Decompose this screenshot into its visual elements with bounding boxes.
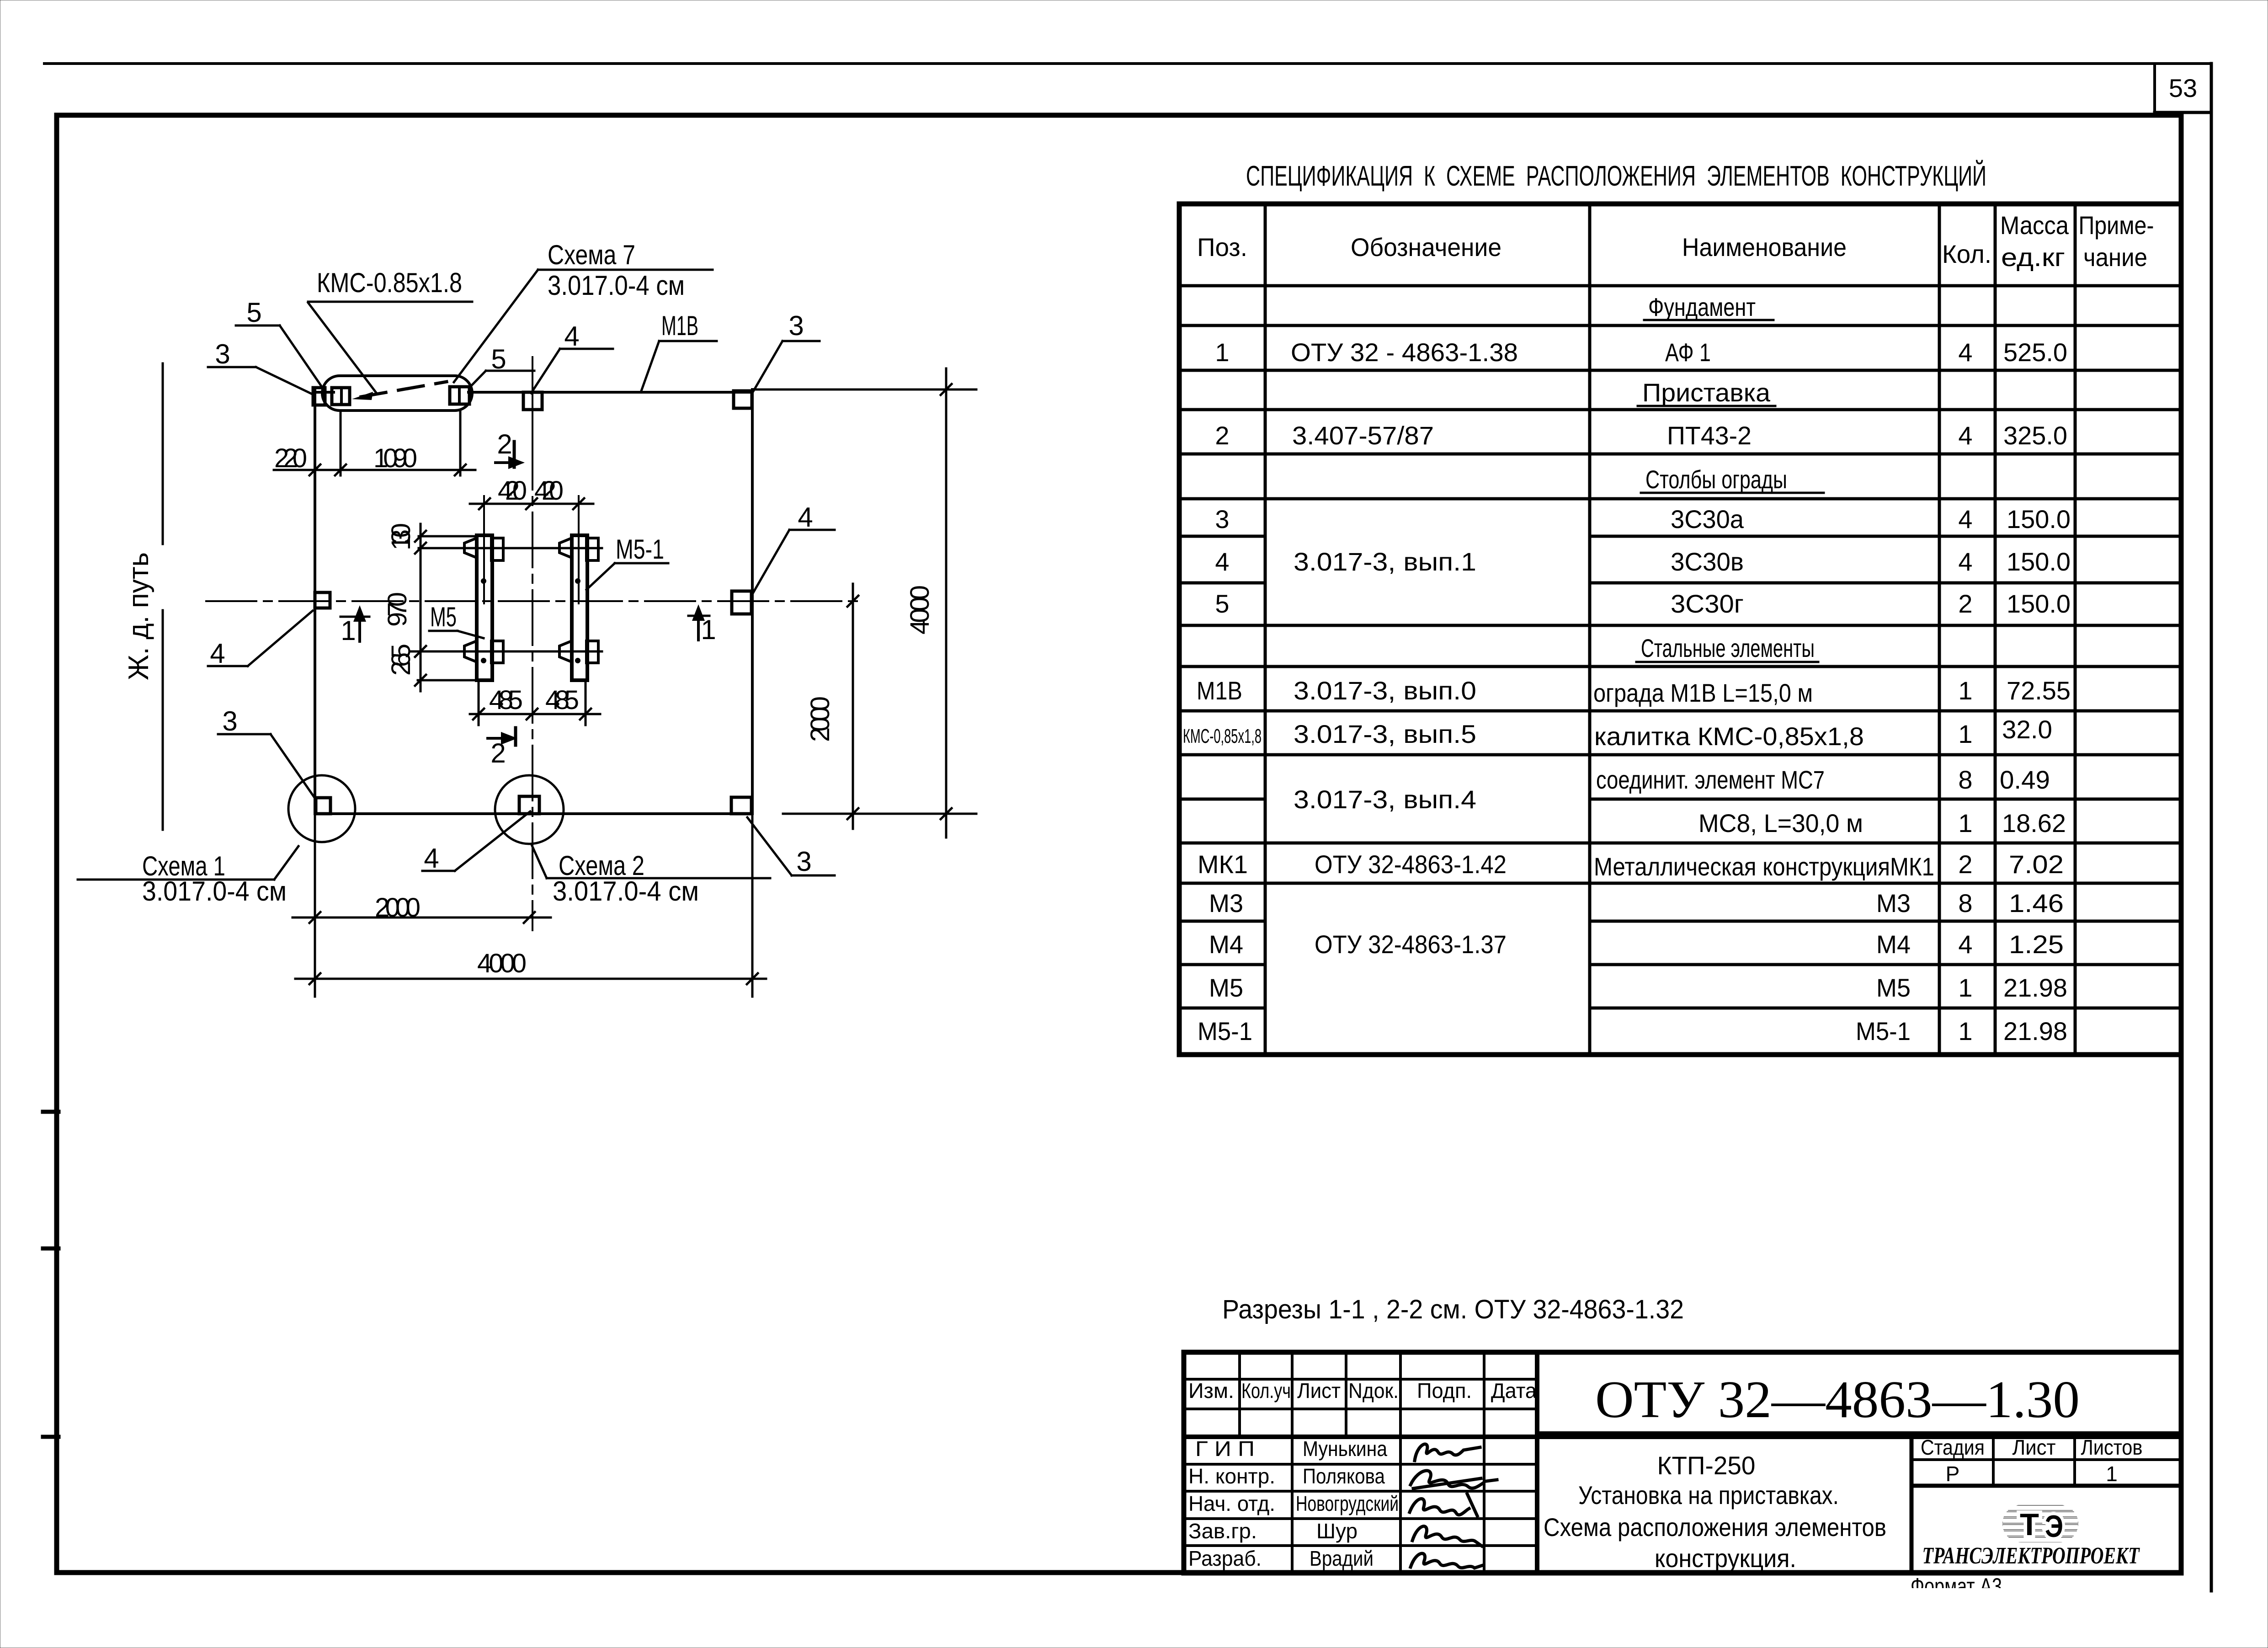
svg-text:4000: 4000	[905, 585, 935, 635]
svg-text:3: 3	[222, 706, 237, 736]
svg-text:Нач. отд.: Нач. отд.	[1188, 1492, 1275, 1515]
svg-text:М4: М4	[1209, 930, 1243, 959]
connector axis bottom	[411, 651, 602, 653]
M5-1 right bar	[572, 535, 587, 680]
svg-text:Шур: Шур	[1316, 1519, 1358, 1543]
svg-text:КМС-0,85х1,8: КМС-0,85х1,8	[1183, 725, 1262, 747]
svg-text:130: 130	[386, 523, 416, 550]
svg-text:1090: 1090	[373, 443, 417, 473]
table body texts	[1183, 293, 2071, 1045]
svg-text:Ж. д. путь: Ж. д. путь	[123, 552, 154, 680]
svg-text:Подп.: Подп.	[1417, 1379, 1472, 1403]
svg-text:ограда М1В L=15,0 м: ограда М1В L=15,0 м	[1593, 678, 1813, 707]
svg-text:4: 4	[1958, 338, 1972, 367]
sheet number box 53	[2155, 64, 2211, 1591]
svg-text:3.017-3, вып.0: 3.017-3, вып.0	[1294, 676, 1476, 705]
svg-text:21.98: 21.98	[2003, 973, 2067, 1002]
outer top rule	[44, 62, 2211, 65]
svg-text:3.017-3, вып.4: 3.017-3, вып.4	[1294, 785, 1476, 814]
svg-text:7.02: 7.02	[2009, 850, 2064, 879]
railway axis line	[162, 363, 164, 544]
svg-text:Зав.гр.: Зав.гр.	[1188, 1519, 1257, 1543]
connector MC7 top-right	[559, 538, 572, 558]
svg-text:конструкция.: конструкция.	[1655, 1544, 1796, 1573]
svg-text:М4: М4	[1876, 930, 1911, 959]
dim 485 485	[470, 682, 600, 725]
section mark 1 left	[341, 616, 369, 618]
svg-text:53: 53	[2169, 74, 2197, 102]
svg-text:М1В: М1В	[1197, 676, 1242, 705]
svg-text:150.0: 150.0	[2007, 505, 2071, 533]
corner post 3 bottom-left	[316, 798, 330, 814]
gate hinge left	[332, 388, 350, 405]
svg-text:325.0: 325.0	[2003, 421, 2067, 450]
svg-text:Полякова: Полякова	[1303, 1464, 1385, 1488]
svg-text:420: 420	[498, 476, 527, 506]
svg-text:3.017.0-4 см: 3.017.0-4 см	[142, 876, 287, 907]
svg-text:Мунькина: Мунькина	[1303, 1437, 1387, 1461]
svg-text:ОТУ 32-4863-1.42: ОТУ 32-4863-1.42	[1315, 850, 1507, 879]
svg-text:Установка на приставках.: Установка на приставках.	[1578, 1481, 1839, 1509]
svg-text:М5-1: М5-1	[616, 534, 664, 565]
svg-text:ед.кг: ед.кг	[2001, 243, 2065, 272]
corner post 3 top-right	[734, 391, 752, 408]
svg-text:72.55: 72.55	[2007, 676, 2071, 705]
svg-text:М5: М5	[1876, 973, 1911, 1002]
fence bottom line	[315, 812, 752, 815]
fence right line	[751, 389, 754, 814]
svg-text:4: 4	[1958, 930, 1972, 959]
svg-text:Листов: Листов	[2081, 1435, 2143, 1459]
svg-text:Стадия: Стадия	[1921, 1435, 1985, 1459]
fence left line	[314, 388, 316, 814]
gate obround KMC	[322, 376, 472, 411]
svg-text:Формат А3: Формат А3	[1911, 1573, 2002, 1599]
section mark 2 bottom	[488, 737, 504, 740]
svg-text:4: 4	[1215, 547, 1229, 576]
svg-text:М5: М5	[430, 602, 457, 632]
bar bottom extension line	[418, 679, 492, 682]
svg-text:1.46: 1.46	[2009, 889, 2064, 917]
svg-text:Схема расположения элементов: Схема расположения элементов	[1544, 1513, 1886, 1541]
svg-text:ТРАНСЭЛЕКТРОПРОЕКТ: ТРАНСЭЛЕКТРОПРОЕКТ	[1922, 1543, 2140, 1569]
svg-text:4: 4	[424, 843, 439, 874]
post 4 left middle	[315, 592, 330, 608]
svg-text:1: 1	[2106, 1462, 2118, 1486]
svg-text:1: 1	[1215, 338, 1229, 367]
svg-text:Разраб.: Разраб.	[1188, 1547, 1262, 1570]
stage section	[1910, 1437, 1914, 1573]
svg-text:3С30в: 3С30в	[1671, 547, 1744, 576]
svg-text:3.017-3, вып.5: 3.017-3, вып.5	[1294, 720, 1476, 748]
table outer border	[1179, 204, 2181, 1055]
dim 4000 bottom	[295, 978, 766, 980]
svg-text:21.98: 21.98	[2003, 1017, 2067, 1045]
svg-text:1: 1	[1958, 676, 1972, 705]
detail circle Schema 2	[495, 775, 564, 844]
svg-text:М3: М3	[1209, 889, 1243, 917]
svg-text:4000: 4000	[477, 949, 527, 978]
small table rows	[1184, 1378, 1537, 1381]
svg-text:М5-1: М5-1	[1856, 1017, 1911, 1045]
gate hinge right	[450, 387, 469, 404]
svg-text:Поз.: Поз.	[1197, 233, 1247, 261]
svg-text:3: 3	[788, 310, 804, 341]
svg-text:1: 1	[701, 614, 716, 645]
svg-text:150.0: 150.0	[2007, 547, 2071, 576]
svg-text:1: 1	[1958, 720, 1972, 748]
svg-text:МС8, L=30,0 м: МС8, L=30,0 м	[1698, 809, 1863, 837]
dim 2000 right	[852, 584, 854, 829]
svg-text:2: 2	[490, 738, 506, 768]
svg-text:2000: 2000	[805, 696, 835, 742]
table column lines	[1264, 204, 1267, 1055]
svg-text:Nдок.: Nдок.	[1348, 1379, 1399, 1403]
svg-text:2: 2	[1958, 850, 1972, 879]
post 4 right middle	[732, 591, 751, 614]
dim 220 1090	[274, 411, 475, 475]
svg-text:Изм.: Изм.	[1188, 1379, 1234, 1403]
svg-text:8: 8	[1958, 765, 1972, 794]
svg-text:4: 4	[798, 502, 813, 533]
connector MC7 bottom-left	[464, 641, 477, 662]
svg-text:АФ 1: АФ 1	[1665, 338, 1711, 367]
svg-text:2: 2	[1958, 589, 1972, 618]
post 4 top middle	[523, 392, 542, 410]
svg-text:Кол.: Кол.	[1942, 240, 1991, 268]
signatures	[1410, 1444, 1497, 1568]
svg-text:3.017-3, вып.1: 3.017-3, вып.1	[1294, 547, 1476, 576]
svg-text:Врадий: Врадий	[1310, 1547, 1374, 1570]
svg-text:525.0: 525.0	[2003, 338, 2067, 367]
svg-text:Г И П: Г И П	[1195, 1437, 1255, 1461]
connector MC7 top-left	[464, 538, 477, 558]
big doc number box	[1535, 1352, 1539, 1573]
svg-text:1: 1	[1958, 973, 1972, 1002]
dim 420 420	[470, 498, 593, 509]
svg-text:калитка КМС-0,85х1,8: калитка КМС-0,85х1,8	[1594, 722, 1864, 751]
svg-text:Наименование: Наименование	[1682, 233, 1847, 261]
detail circle Schema 1	[288, 775, 355, 842]
vertical centerline	[532, 357, 533, 930]
svg-text:2: 2	[1215, 421, 1229, 450]
horizontal centerline	[206, 600, 858, 602]
svg-text:МК1: МК1	[1198, 850, 1248, 879]
connector axis top	[458, 547, 602, 549]
bolt axis left	[483, 496, 485, 603]
gate swing dashed line	[361, 382, 447, 397]
corner post 3 top-left	[313, 388, 325, 405]
corner post 3 bottom-right	[731, 797, 751, 814]
svg-text:Разрезы 1-1 , 2-2 см. ОТУ 32-4: Разрезы 1-1 , 2-2 см. ОТУ 32-4863-1.32	[1222, 1295, 1684, 1324]
svg-text:4: 4	[1958, 547, 1972, 576]
svg-text:1.25: 1.25	[2009, 930, 2064, 959]
small table columns	[1238, 1352, 1241, 1437]
svg-text:чание: чание	[2083, 243, 2147, 272]
svg-text:М5-1: М5-1	[1198, 1017, 1252, 1045]
svg-text:Р: Р	[1946, 1462, 1960, 1486]
svg-text:ОТУ 32 - 4863-1.38: ОТУ 32 - 4863-1.38	[1291, 338, 1518, 367]
title block outer	[1184, 1352, 2181, 1573]
table header texts	[1197, 211, 2154, 272]
svg-text:485: 485	[545, 685, 579, 715]
bolt dots	[481, 578, 486, 584]
svg-text:Столбы ограды: Столбы ограды	[1645, 465, 1787, 494]
svg-text:Дата: Дата	[1491, 1379, 1537, 1403]
header labels	[1188, 1379, 1537, 1570]
svg-text:СПЕЦИФИКАЦИЯ К СХЕМЕ РАСПОЛ: СПЕЦИФИКАЦИЯ К СХЕМЕ РАСПОЛОЖЕНИЯ ЭЛЕМЕН…	[1246, 160, 1986, 192]
svg-text:32.0: 32.0	[2002, 715, 2052, 744]
svg-text:8: 8	[1958, 889, 1972, 917]
svg-text:М3: М3	[1876, 889, 1911, 917]
svg-text:18.62: 18.62	[2002, 809, 2066, 837]
svg-text:4: 4	[210, 638, 225, 669]
svg-text:Новогрудский: Новогрудский	[1296, 1492, 1399, 1515]
svg-text:Металлическая конструкцияМК1: Металлическая конструкцияМК1	[1594, 852, 1934, 881]
svg-text:М1В: М1В	[661, 310, 698, 341]
post 4 bottom middle	[519, 796, 539, 814]
svg-text:3С30г: 3С30г	[1671, 589, 1744, 618]
svg-text:ОТУ 32-4863-1.37: ОТУ 32-4863-1.37	[1315, 930, 1507, 959]
svg-text:Масса: Масса	[2000, 211, 2069, 240]
svg-text:3С30а: 3С30а	[1671, 505, 1744, 533]
svg-text:3: 3	[796, 846, 811, 877]
svg-text:Н. контр.: Н. контр.	[1188, 1464, 1275, 1488]
svg-text:КТП-250: КТП-250	[1657, 1451, 1756, 1480]
TEP logo	[2002, 1505, 2078, 1544]
svg-text:Стальные элементы: Стальные элементы	[1641, 634, 1815, 662]
svg-text:970: 970	[383, 592, 412, 627]
svg-text:4: 4	[1958, 421, 1972, 450]
svg-text:ПТ43-2: ПТ43-2	[1667, 421, 1752, 450]
svg-text:Лист: Лист	[2012, 1435, 2056, 1459]
connector MC7 bottom-right	[559, 641, 572, 662]
svg-text:4: 4	[1958, 505, 1972, 533]
svg-text:3.017.0-4 см: 3.017.0-4 см	[548, 270, 685, 301]
svg-text:3.017.0-4 см: 3.017.0-4 см	[553, 876, 699, 907]
fence top line M1B	[313, 391, 334, 394]
svg-text:420: 420	[534, 476, 564, 506]
svg-text:2: 2	[497, 429, 512, 459]
svg-text:Э: Э	[2045, 1509, 2063, 1544]
right dim extension lines	[753, 389, 976, 391]
post axis line top middle	[532, 357, 533, 434]
svg-text:485: 485	[489, 685, 523, 715]
svg-text:КМС-0.85х1.8: КМС-0.85х1.8	[317, 267, 462, 298]
format note fragment	[1911, 1573, 2002, 1599]
svg-text:1: 1	[1958, 809, 1972, 837]
bolt axis right	[578, 496, 580, 603]
svg-text:Т: Т	[2020, 1507, 2039, 1542]
svg-text:220: 220	[274, 443, 307, 473]
bottom dim extension lines	[314, 814, 316, 997]
svg-text:3: 3	[1215, 505, 1229, 533]
svg-text:1: 1	[1958, 1017, 1972, 1045]
svg-text:1: 1	[341, 615, 356, 646]
svg-text:соединит. элемент МС7: соединит. элемент МС7	[1596, 765, 1825, 794]
svg-text:265: 265	[386, 644, 416, 676]
svg-text:150.0: 150.0	[2007, 589, 2071, 618]
svg-text:0.49: 0.49	[2000, 765, 2050, 794]
M5 left bar	[477, 535, 492, 680]
svg-text:3.407-57/87: 3.407-57/87	[1292, 421, 1434, 450]
svg-text:ОТУ 32—4863—1.30: ОТУ 32—4863—1.30	[1595, 1371, 2080, 1429]
svg-text:3: 3	[215, 339, 230, 369]
svg-text:5: 5	[1215, 589, 1229, 618]
svg-text:Приставка: Приставка	[1642, 378, 1771, 407]
svg-text:2000: 2000	[375, 893, 421, 923]
svg-text:5: 5	[246, 297, 261, 328]
project name box texts	[1544, 1451, 1886, 1573]
dim 2000 bottom	[293, 917, 551, 919]
svg-text:Приме-: Приме-	[2079, 211, 2154, 240]
section mark 1 right	[688, 615, 709, 617]
fold tick marks on left edge	[43, 1110, 59, 1114]
dim 4000 right	[945, 368, 948, 837]
svg-text:4: 4	[564, 321, 579, 352]
svg-text:Обозначение: Обозначение	[1351, 233, 1501, 261]
svg-text:Лист: Лист	[1297, 1379, 1341, 1403]
svg-text:Схема 7: Схема 7	[548, 240, 635, 270]
svg-text:Фундамент: Фундамент	[1648, 293, 1756, 321]
svg-text:М5: М5	[1209, 973, 1243, 1002]
table row lines	[1179, 284, 2181, 288]
dim chain 130 970 265	[415, 524, 477, 691]
svg-text:Кол.уч: Кол.уч	[1241, 1379, 1291, 1403]
